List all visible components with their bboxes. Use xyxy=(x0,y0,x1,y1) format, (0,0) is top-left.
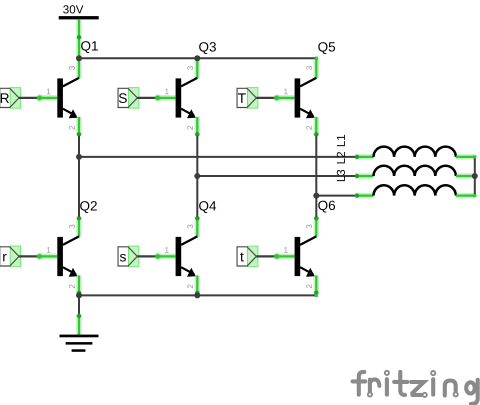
svg-text:2: 2 xyxy=(305,284,314,289)
svg-text:3: 3 xyxy=(68,224,77,229)
svg-text:1: 1 xyxy=(284,87,289,96)
node star point xyxy=(472,173,478,179)
svg-text:Q5: Q5 xyxy=(318,40,336,55)
node bottom rail at Q2 xyxy=(76,292,82,298)
svg-text:2: 2 xyxy=(186,125,195,130)
transistor Q3 xyxy=(156,58,199,136)
svg-text:1: 1 xyxy=(165,87,170,96)
svg-text:Q4: Q4 xyxy=(198,199,217,214)
svg-text:T: T xyxy=(238,91,247,106)
wire from R to Q1 base xyxy=(19,97,40,99)
fritzing logo watermark xyxy=(353,371,478,404)
wire Q1 emitter to phase node A xyxy=(78,136,80,217)
node phase A xyxy=(76,154,82,160)
svg-text:1: 1 xyxy=(46,87,51,96)
transistor Q1 xyxy=(38,58,81,136)
inductor L1 xyxy=(374,147,456,157)
svg-text:s: s xyxy=(119,249,126,264)
wire from T to Q5 base xyxy=(256,97,277,99)
ground xyxy=(60,335,99,338)
wire Q5 emitter to phase node C xyxy=(315,136,317,217)
inductor L2 xyxy=(374,166,456,176)
transistor Q2 xyxy=(38,216,81,295)
wire from S to Q3 base xyxy=(137,97,158,99)
wire phase A to L1 xyxy=(79,156,356,158)
wire L1 right end down to star node xyxy=(456,154,475,160)
wire bottom rail to ground xyxy=(78,295,80,314)
svg-text:3: 3 xyxy=(68,65,77,70)
svg-text:3: 3 xyxy=(186,224,195,229)
svg-text:r: r xyxy=(2,249,7,264)
net connector r xyxy=(0,246,21,267)
node phase B xyxy=(194,173,200,179)
net connector s xyxy=(118,246,139,267)
transistor Q6 xyxy=(275,216,318,295)
svg-text:t: t xyxy=(240,249,244,264)
svg-text:Q1: Q1 xyxy=(80,39,98,54)
wire Q3 emitter to phase node B xyxy=(196,136,198,217)
svg-text:R: R xyxy=(0,91,10,106)
svg-text:3: 3 xyxy=(305,65,314,70)
wire L3 right end up to star node xyxy=(456,193,475,199)
svg-text:1: 1 xyxy=(46,246,51,255)
svg-text:2: 2 xyxy=(68,125,77,130)
svg-text:L3: L3 xyxy=(335,169,348,182)
svg-text:S: S xyxy=(118,91,127,106)
net connector R xyxy=(0,88,21,109)
svg-text:30V: 30V xyxy=(63,3,84,16)
wire from t to Q6 base xyxy=(256,255,277,257)
wire L2 right end to star node xyxy=(456,173,475,179)
net connector t xyxy=(237,246,258,267)
wire from r to Q2 base xyxy=(19,255,40,257)
svg-text:3: 3 xyxy=(305,224,314,229)
svg-text:2: 2 xyxy=(305,125,314,130)
node top rail at Q1 xyxy=(76,55,82,61)
svg-text:Q2: Q2 xyxy=(79,199,97,214)
net connector S xyxy=(118,88,139,109)
net connector T xyxy=(237,88,258,109)
svg-text:Q3: Q3 xyxy=(198,40,216,55)
svg-text:1: 1 xyxy=(284,246,289,255)
transistor Q4 xyxy=(156,216,199,295)
wire top rail Q1-Q3-Q5 collectors xyxy=(79,57,316,59)
node phase C xyxy=(313,193,319,199)
svg-text:1: 1 xyxy=(165,246,170,255)
inductor L3 xyxy=(374,185,456,195)
svg-text:2: 2 xyxy=(186,284,195,289)
wire 30V to Q1 collector node xyxy=(76,19,82,58)
svg-text:3: 3 xyxy=(186,65,195,70)
wire from s to Q4 base xyxy=(137,255,158,257)
svg-text:2: 2 xyxy=(68,284,77,289)
transistor Q5 xyxy=(275,58,318,136)
svg-text:Q6: Q6 xyxy=(318,198,336,213)
svg-text:L1: L1 xyxy=(335,134,348,147)
node top rail at Q3 xyxy=(194,55,200,61)
power supply 30V symbol xyxy=(59,16,99,19)
node bottom rail at Q4 xyxy=(194,292,200,298)
wire phase B to L2 xyxy=(197,175,355,177)
wire bottom emitter rail xyxy=(79,294,316,296)
wire phase C to L3 xyxy=(316,195,355,197)
svg-text:L2: L2 xyxy=(335,151,348,164)
